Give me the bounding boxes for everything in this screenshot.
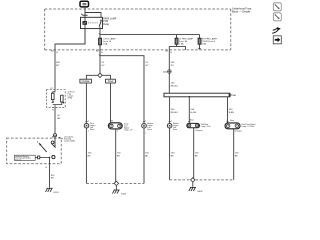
wire relay switch down to fuses [99, 27, 101, 56]
svg-text:A4: A4 [52, 135, 54, 138]
splice diamond net1 [114, 181, 118, 185]
fuse feed line [100, 34, 200, 36]
ground net 2 dashed [170, 179, 234, 181]
switch text box [15, 155, 36, 160]
ground G201 [46, 188, 53, 192]
connector S-box at top [80, 1, 89, 7]
wire below RT fuse to edge [199, 44, 201, 49]
ground net 1 dashed [86, 182, 144, 184]
relay label [103, 18, 116, 26]
svg-text:Front: Front [90, 128, 95, 131]
left feed wire label [56, 62, 60, 67]
junction tick [99, 33, 100, 35]
svg-text:RD-BU: RD-BU [171, 112, 178, 114]
wire below dual LF [115, 129, 117, 184]
wire below marker LF [143, 128, 145, 183]
svg-text:Block — Details: Block — Details [232, 9, 251, 13]
svg-text:GY: GY [101, 65, 105, 67]
svg-text:PU: PU [171, 65, 174, 67]
ground G103 [115, 186, 117, 190]
connector tick on wire [83, 14, 88, 16]
wire from S-box to relay coil [84, 7, 86, 44]
svg-text:Lamp - LF: Lamp - LF [124, 129, 133, 131]
svg-text:Lamps (DRL): Lamps (DRL) [64, 141, 76, 143]
nav icon 1 [273, 3, 281, 11]
park lamp relay box [81, 17, 103, 28]
option box right [106, 79, 116, 83]
branch to marker lamp LF [99, 54, 100, 56]
headlamp switch internals [54, 138, 56, 146]
headlamp switch dashed box [7, 138, 62, 164]
svg-text:10A: 10A [103, 43, 107, 46]
fuse block label [232, 6, 252, 13]
relay switch blade [99, 21, 101, 27]
wires bar to rear lamps [169, 97, 171, 124]
link inside [53, 102, 62, 105]
wire relay coil return to left [55, 29, 85, 90]
svg-text:Relay: Relay [103, 24, 110, 26]
wire below CTSY fuse [99, 45, 101, 56]
svg-text:G103: G103 [121, 194, 127, 196]
svg-text:GY: GY [145, 65, 149, 67]
center wire label [101, 62, 105, 67]
marker lamp LF (circle) [142, 123, 147, 128]
option box left [80, 79, 92, 83]
svg-text:7.5A: 7.5A [179, 43, 184, 46]
dual park/turn lamp LF (stadium) [108, 123, 122, 129]
ground G402 [192, 182, 194, 187]
bracket below LT fuse [169, 44, 176, 50]
small dashed box (DRL module) [47, 90, 66, 108]
marker lamp LR (circle) [167, 123, 172, 128]
splice diamond net2 [191, 178, 195, 182]
nav icon 4 (boxed arrow) [273, 36, 281, 44]
module label [68, 90, 75, 99]
branch to option boxes [86, 75, 97, 79]
svg-text:B-GN: B-GN [191, 112, 197, 114]
wire below park LF [85, 128, 87, 183]
svg-text:Fixed: Fixed [108, 81, 114, 83]
second element inside [61, 95, 64, 102]
inline connector above switch [53, 134, 56, 137]
svg-text:B-BN: B-BN [229, 112, 235, 114]
svg-text:Rear: Rear [190, 119, 194, 122]
svg-text:(Lamps): (Lamps) [195, 130, 202, 132]
svg-text:Rear: Rear [230, 119, 234, 122]
splice diamond S1 [98, 73, 102, 77]
A40 inline connector [168, 70, 172, 74]
wire branch to relay switch terminal [85, 13, 101, 18]
LT PRK fuse [175, 38, 178, 44]
circuit breaker inside [53, 90, 55, 94]
svg-text:2: 2 [88, 121, 89, 123]
CTSY fuse [99, 38, 102, 45]
svg-text:Front: Front [147, 128, 152, 131]
wires option boxes to front lamps [85, 83, 87, 123]
nav icon 3 (swoosh arrow) [272, 28, 278, 34]
nav icon 2 [273, 13, 281, 21]
svg-text:1: 1 [88, 131, 89, 133]
svg-text:1: 1 [145, 133, 146, 135]
wire LT fuse to bar [168, 50, 170, 93]
tee to LT fuse [176, 35, 178, 39]
front park lamp LF (circle) [84, 123, 89, 128]
relay dotted link [88, 22, 98, 24]
svg-text:10A: 10A [202, 43, 206, 46]
svg-text:(T96): (T96) [68, 98, 73, 100]
svg-text:Outside: Outside [82, 80, 91, 83]
wire CTSY down with branch [99, 56, 101, 73]
fuse block dashed box (Underhood Fuse Block) [45, 9, 231, 50]
switch output wire [49, 157, 51, 187]
svg-text:4: 4 [117, 131, 118, 133]
svg-text:G201: G201 [53, 192, 59, 194]
svg-text:Rear: Rear [173, 128, 177, 131]
svg-text:Lamp - LT Rear: Lamp - LT Rear [241, 125, 254, 128]
switch common row [35, 156, 49, 158]
wire feed to RT fuse [199, 35, 201, 39]
svg-text:BN: BN [57, 118, 60, 120]
svg-text:PARK LAMP: PARK LAMP [103, 18, 116, 21]
svg-text:RD-BU: RD-BU [171, 85, 178, 87]
distribution bar [164, 93, 230, 97]
wire module to switch [54, 107, 56, 138]
RT PRK fuse [198, 38, 201, 44]
svg-text:1: 1 [145, 121, 146, 123]
svg-text:1: 1 [171, 121, 172, 123]
DRL callout [64, 135, 76, 142]
svg-text:1: 1 [112, 120, 113, 122]
svg-text:G402: G402 [197, 191, 203, 193]
relay coil [83, 21, 87, 24]
svg-text:(Lamps): (Lamps) [235, 131, 242, 133]
svg-text:Lamp - Left: Lamp - Left [201, 125, 211, 128]
